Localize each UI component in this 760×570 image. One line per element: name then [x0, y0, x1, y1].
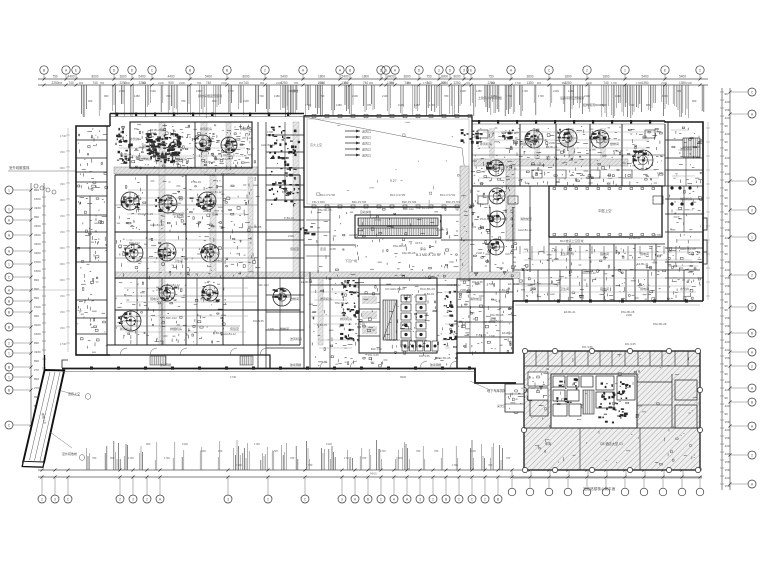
svg-text:B1F-P1706: B1F-P1706 — [320, 193, 336, 197]
svg-text:2: 2 — [751, 365, 753, 369]
svg-text:新风机房: 新风机房 — [120, 326, 132, 331]
vertical duct shafts top right rooms — [489, 128, 606, 160]
svg-text:1: 1 — [751, 236, 753, 240]
svg-text:1350: 1350 — [526, 81, 533, 85]
svg-text:158: 158 — [725, 108, 730, 112]
svg-text:158: 158 — [725, 468, 730, 472]
svg-text:3600: 3600 — [526, 75, 533, 79]
svg-text:2: 2 — [438, 69, 440, 73]
rooms below hall fine — [308, 208, 468, 273]
svg-text:C: C — [548, 69, 551, 73]
svg-text:96: 96 — [725, 140, 729, 144]
svg-text:780: 780 — [100, 81, 105, 85]
svg-text:2: 2 — [751, 454, 753, 458]
svg-text:AHU-B1-12: AHU-B1-12 — [582, 271, 596, 275]
vertical duct shafts left block — [159, 122, 323, 345]
svg-text:1730: 1730 — [375, 218, 381, 222]
svg-text:2100: 2100 — [586, 81, 592, 85]
escalator outline — [355, 215, 441, 238]
hall2 text — [560, 208, 612, 243]
svg-text:E: E — [470, 69, 473, 73]
svg-text:B1F-C12: B1F-C12 — [282, 190, 293, 194]
svg-text:1730: 1730 — [344, 456, 350, 460]
interior witness line east — [706, 122, 710, 300]
svg-text:96: 96 — [725, 164, 729, 168]
svg-text:B: B — [445, 498, 448, 502]
svg-text:水管井: 水管井 — [200, 296, 209, 301]
svg-text:A: A — [394, 69, 397, 73]
hall sparse marks — [317, 122, 466, 203]
svg-text:A: A — [8, 289, 11, 293]
svg-text:EF-B1-21: EF-B1-21 — [301, 280, 313, 284]
svg-text:740: 740 — [92, 81, 98, 85]
svg-text:PAU-B1-08: PAU-B1-08 — [318, 208, 332, 212]
svg-text:1730: 1730 — [655, 233, 661, 237]
svg-text:2: 2 — [751, 274, 753, 278]
svg-text:96: 96 — [725, 300, 729, 304]
svg-text:弱电间: 弱电间 — [150, 296, 159, 301]
hall bottom text row — [312, 200, 461, 204]
svg-text:3300: 3300 — [34, 233, 41, 237]
left dimension line 2 — [43, 183, 45, 440]
svg-text:890: 890 — [34, 215, 39, 219]
duct band horizontal center — [295, 272, 520, 279]
svg-text:走道: 走道 — [212, 211, 218, 216]
right dimension ticks — [720, 92, 730, 488]
equipment dark clusters — [118, 129, 646, 325]
svg-text:排烟机房: 排烟机房 — [240, 126, 252, 131]
svg-text:96: 96 — [725, 148, 729, 152]
svg-text:960: 960 — [239, 81, 244, 85]
svg-text:1730: 1730 — [258, 94, 264, 98]
svg-text:1730: 1730 — [228, 89, 234, 93]
tower core cells — [553, 376, 635, 423]
svg-text:玻璃雨棚: 玻璃雨棚 — [160, 363, 171, 367]
svg-text:780: 780 — [444, 94, 449, 98]
svg-text:P-B1-03: P-B1-03 — [213, 331, 223, 335]
tower core outline — [551, 374, 637, 428]
svg-text:3: 3 — [227, 498, 229, 502]
left column rooms fine — [470, 161, 517, 277]
svg-text:高大上空: 高大上空 — [310, 142, 322, 147]
svg-text:1730: 1730 — [380, 449, 386, 453]
top annotation boxes — [198, 88, 607, 107]
svg-text:740: 740 — [68, 81, 74, 85]
svg-text:B1F-C12: B1F-C12 — [129, 241, 140, 245]
hall roof diagonal — [305, 117, 469, 205]
svg-text:158: 158 — [725, 436, 730, 440]
svg-text:1730: 1730 — [400, 343, 406, 347]
svg-text:1730: 1730 — [128, 456, 134, 460]
svg-text:3: 3 — [54, 498, 56, 502]
svg-text:2: 2 — [267, 498, 269, 502]
right wall bumps — [703, 218, 707, 264]
svg-text:158: 158 — [725, 324, 730, 328]
top axis bubbles row — [40, 66, 704, 79]
duct band vertical center — [460, 166, 469, 281]
tower hatch body — [524, 351, 700, 470]
svg-text:96: 96 — [725, 372, 729, 376]
svg-text:酒店塔楼核心筒平面: 酒店塔楼核心筒平面 — [583, 486, 616, 491]
svg-text:A: A — [302, 69, 305, 73]
top witness line clusters — [82, 85, 704, 118]
svg-text:2100: 2100 — [150, 89, 156, 93]
svg-text:PAU-B1-08: PAU-B1-08 — [653, 322, 667, 326]
svg-text:1800: 1800 — [318, 75, 325, 79]
svg-text:排风机房: 排风机房 — [680, 196, 692, 201]
svg-text:2100: 2100 — [288, 234, 294, 238]
ramp outline — [23, 370, 64, 463]
svg-text:780: 780 — [290, 456, 295, 460]
core bottom fixtures — [402, 341, 438, 351]
svg-text:PAU-B1-08: PAU-B1-08 — [335, 301, 349, 305]
svg-text:P-B1-03: P-B1-03 — [355, 322, 365, 326]
svg-text:值班室: 值班室 — [230, 326, 239, 331]
svg-text:3: 3 — [132, 498, 134, 502]
bottom axis bubbles right group — [508, 479, 704, 496]
exterior wall bottom main — [62, 369, 516, 384]
svg-text:水管井: 水管井 — [680, 286, 689, 291]
svg-text:FFL 9.650: FFL 9.650 — [312, 200, 325, 204]
south wall thin offset line — [515, 304, 700, 306]
svg-text:2: 2 — [751, 209, 753, 213]
svg-text:B1F-C12: B1F-C12 — [258, 283, 269, 287]
svg-text:4400: 4400 — [387, 75, 394, 79]
svg-text:780: 780 — [142, 81, 147, 85]
svg-text:2100: 2100 — [553, 89, 559, 93]
svg-text:B: B — [8, 389, 11, 393]
mid-left rooms grid — [115, 175, 300, 345]
svg-text:1480: 1480 — [134, 94, 140, 98]
svg-text:1730: 1730 — [487, 282, 493, 286]
svg-text:3300: 3300 — [34, 350, 41, 354]
svg-text:FFL 9.65: FFL 9.65 — [625, 342, 636, 346]
svg-text:780: 780 — [58, 81, 63, 85]
svg-text:750: 750 — [426, 75, 432, 79]
tower west annex rooms — [505, 384, 525, 412]
svg-text:8000: 8000 — [242, 75, 249, 79]
svg-text:5400: 5400 — [679, 75, 686, 79]
svg-text:270: 270 — [34, 368, 39, 372]
exterior wall right wing bottom — [513, 300, 703, 302]
svg-text:1480: 1480 — [336, 103, 342, 107]
svg-text:B: B — [751, 401, 754, 405]
svg-text:740: 740 — [243, 81, 249, 85]
left leader line — [8, 165, 75, 171]
svg-text:AHU-B1-12: AHU-B1-12 — [208, 190, 222, 194]
svg-text:XFT-1: XFT-1 — [415, 241, 423, 245]
svg-text:D: D — [449, 69, 452, 73]
tower interior fine — [530, 354, 701, 465]
svg-text:2: 2 — [484, 498, 486, 502]
svg-text:D: D — [418, 69, 421, 73]
svg-text:8000: 8000 — [91, 75, 98, 79]
svg-text:890: 890 — [34, 278, 39, 282]
svg-text:1800: 1800 — [362, 75, 369, 79]
bottom axis bubbles left group — [38, 478, 502, 503]
hall outline — [304, 116, 472, 207]
svg-text:EF-B1-21: EF-B1-21 — [150, 128, 162, 132]
svg-text:楼梯间: 楼梯间 — [280, 326, 289, 331]
svg-text:960: 960 — [60, 278, 65, 282]
svg-text:1730: 1730 — [636, 81, 642, 85]
svg-text:890: 890 — [34, 296, 39, 300]
svg-text:1730: 1730 — [506, 94, 512, 98]
svg-text:EF-B1-21: EF-B1-21 — [502, 331, 514, 335]
svg-text:900: 900 — [168, 81, 174, 85]
column ticks bottom walkway — [90, 367, 471, 370]
exterior wall left wing — [76, 126, 110, 355]
svg-text:960: 960 — [218, 449, 223, 453]
svg-text:5400: 5400 — [641, 75, 648, 79]
svg-text:960: 960 — [146, 442, 151, 446]
south-right rooms row — [513, 270, 700, 301]
svg-text:C: C — [304, 498, 307, 502]
scatter labels2 — [120, 128, 667, 360]
svg-text:EF-B1-21: EF-B1-21 — [629, 236, 641, 240]
duct band horizontal upper-left — [114, 167, 258, 174]
svg-text:A: A — [751, 180, 754, 184]
svg-text:PAU-B1-08: PAU-B1-08 — [402, 251, 416, 255]
walkway canopy hooks — [62, 360, 68, 368]
svg-text:B1F-P1705: B1F-P1705 — [402, 200, 417, 204]
svg-text:158: 158 — [725, 420, 730, 424]
svg-text:750: 750 — [488, 75, 494, 79]
svg-text:P-B1-03: P-B1-03 — [424, 292, 434, 296]
svg-text:PAU-B1-08: PAU-B1-08 — [437, 356, 451, 360]
svg-text:玻璃雨棚: 玻璃雨棚 — [430, 363, 441, 367]
svg-text:消防前室: 消防前室 — [520, 216, 532, 221]
svg-text:330: 330 — [725, 100, 730, 104]
svg-text:330: 330 — [725, 116, 730, 120]
svg-text:960: 960 — [60, 198, 65, 202]
svg-text:1730: 1730 — [657, 171, 663, 175]
hall2 outline — [549, 186, 662, 237]
svg-text:2100: 2100 — [382, 94, 388, 98]
svg-text:960: 960 — [88, 99, 93, 103]
svg-text:8000: 8000 — [441, 75, 448, 79]
svg-text:330: 330 — [725, 292, 730, 296]
hall edge ticks — [312, 115, 472, 209]
svg-text:卫生间: 卫生间 — [560, 286, 569, 291]
svg-text:FFL 9.65: FFL 9.65 — [204, 173, 215, 177]
svg-text:960: 960 — [60, 262, 65, 266]
svg-text:A: A — [751, 425, 754, 429]
left block interior fine lines — [116, 124, 260, 344]
svg-text:A: A — [751, 113, 754, 117]
svg-text:AHU-B1-12: AHU-B1-12 — [386, 338, 400, 342]
exterior wall top right — [472, 121, 665, 124]
svg-text:C: C — [471, 498, 474, 502]
svg-text:96: 96 — [725, 396, 729, 400]
escalator treads — [358, 218, 438, 236]
ramp upper note — [58, 390, 91, 399]
svg-text:960: 960 — [110, 456, 115, 460]
svg-text:C: C — [458, 498, 461, 502]
svg-text:780: 780 — [92, 456, 97, 460]
interior witness line west — [60, 128, 70, 352]
svg-text:3600: 3600 — [403, 75, 410, 79]
svg-text:960: 960 — [491, 81, 496, 85]
top small dim texts — [88, 89, 697, 107]
svg-text:158: 158 — [725, 356, 730, 360]
svg-text:1730: 1730 — [429, 103, 435, 107]
svg-text:FFL 9.65: FFL 9.65 — [368, 353, 379, 357]
svg-text:2100: 2100 — [243, 99, 249, 103]
svg-text:P-B1-03: P-B1-03 — [613, 149, 623, 153]
svg-text:2: 2 — [432, 498, 434, 502]
svg-text:96: 96 — [725, 124, 729, 128]
svg-text:330: 330 — [725, 476, 730, 480]
svg-text:A: A — [751, 483, 754, 487]
svg-text:1480: 1480 — [568, 89, 574, 93]
left axis bubbles — [5, 186, 30, 429]
svg-text:库房: 库房 — [136, 258, 142, 263]
svg-text:780: 780 — [320, 94, 325, 98]
svg-text:1730: 1730 — [662, 94, 668, 98]
svg-text:890: 890 — [34, 188, 39, 192]
svg-text:1800: 1800 — [602, 75, 609, 79]
svg-text:EF-B1-21: EF-B1-21 — [637, 262, 649, 266]
top dimension line 2 — [38, 84, 708, 86]
walkway note2 — [497, 403, 519, 414]
svg-text:送风口: 送风口 — [362, 135, 371, 140]
svg-text:AHU-B1-12: AHU-B1-12 — [222, 332, 236, 336]
svg-text:PAU-B1-08: PAU-B1-08 — [248, 225, 262, 229]
tower texts — [545, 441, 623, 446]
svg-text:B1F-C12: B1F-C12 — [403, 207, 414, 211]
left wing fine — [78, 128, 109, 352]
svg-text:C: C — [151, 69, 154, 73]
svg-text:B: B — [751, 332, 754, 336]
svg-text:2100: 2100 — [212, 289, 218, 293]
svg-text:780: 780 — [367, 103, 372, 107]
svg-text:送风口: 送风口 — [362, 141, 371, 146]
svg-text:P-B1-03: P-B1-03 — [284, 216, 294, 220]
svg-text:AHU-B1-12: AHU-B1-12 — [166, 283, 180, 287]
svg-text:1480: 1480 — [196, 89, 202, 93]
duct band horizontal right — [474, 159, 628, 166]
svg-text:5400: 5400 — [341, 75, 348, 79]
svg-text:EF-B1-21: EF-B1-21 — [508, 282, 520, 286]
svg-text:2100: 2100 — [182, 442, 188, 446]
svg-text:C: C — [67, 498, 70, 502]
svg-text:330: 330 — [725, 452, 730, 456]
svg-text:890: 890 — [34, 359, 39, 363]
svg-text:B: B — [8, 311, 11, 315]
svg-text:D: D — [385, 69, 388, 73]
misc dense details — [116, 126, 458, 345]
svg-text:1500: 1500 — [34, 332, 41, 336]
svg-text:2: 2 — [119, 498, 121, 502]
svg-text:PAU-B1-08: PAU-B1-08 — [531, 163, 545, 167]
column ticks right bottom wall — [525, 300, 688, 303]
svg-text:780: 780 — [506, 456, 511, 460]
wall between hall2 and rooms — [529, 186, 531, 240]
svg-text:B1F-C12: B1F-C12 — [371, 347, 382, 351]
svg-text:1480: 1480 — [615, 94, 621, 98]
svg-text:E: E — [664, 69, 667, 73]
svg-text:1730: 1730 — [60, 134, 67, 138]
svg-text:960: 960 — [60, 166, 65, 170]
svg-text:送风口: 送风口 — [362, 153, 371, 158]
left top mini bubbles — [34, 184, 56, 194]
svg-text:2100: 2100 — [158, 81, 164, 85]
svg-text:96: 96 — [725, 204, 729, 208]
svg-text:9600: 9600 — [400, 375, 407, 379]
duct band vertical right — [506, 166, 515, 241]
svg-text:P-B1-03: P-B1-03 — [525, 139, 535, 143]
svg-text:2100: 2100 — [626, 313, 632, 317]
svg-text:158: 158 — [725, 220, 730, 224]
svg-text:新风机房: 新风机房 — [480, 141, 492, 146]
svg-text:1730: 1730 — [515, 81, 521, 85]
svg-text:D: D — [113, 69, 116, 73]
left block sub partitions — [115, 205, 258, 326]
svg-text:890: 890 — [34, 314, 39, 318]
svg-text:890: 890 — [34, 287, 39, 291]
tower west cells — [528, 372, 548, 400]
svg-text:330: 330 — [60, 326, 65, 330]
svg-text:1730: 1730 — [177, 213, 183, 217]
svg-text:96: 96 — [725, 412, 729, 416]
svg-text:B1F坡道上空区域: B1F坡道上空区域 — [560, 238, 584, 243]
svg-text:2100: 2100 — [231, 147, 237, 151]
svg-text:PAU-B1-08: PAU-B1-08 — [490, 313, 504, 317]
svg-text:1500: 1500 — [34, 269, 41, 273]
cells left of hall — [266, 122, 304, 200]
mid-left lower wall — [107, 344, 300, 346]
top dimension ticks — [43, 78, 702, 87]
svg-text:B1F-C12: B1F-C12 — [459, 320, 470, 324]
svg-text:连廊上空: 连廊上空 — [68, 391, 80, 396]
svg-text:2250: 2250 — [453, 81, 460, 85]
ramp end cap — [22, 462, 44, 467]
svg-text:330: 330 — [60, 230, 65, 234]
svg-text:960: 960 — [369, 81, 374, 85]
svg-text:送风机房: 送风机房 — [680, 146, 692, 151]
svg-text:2100: 2100 — [661, 81, 667, 85]
svg-text:158: 158 — [725, 460, 730, 464]
svg-text:2100: 2100 — [221, 81, 227, 85]
svg-text:结构留洞900x900: 结构留洞900x900 — [583, 102, 607, 107]
svg-text:新风机房: 新风机房 — [200, 126, 212, 131]
svg-text:2100: 2100 — [179, 81, 185, 85]
machine room interior fine — [139, 124, 251, 169]
svg-text:330: 330 — [725, 132, 730, 136]
svg-text:780: 780 — [197, 81, 202, 85]
svg-text:EF-B1-21: EF-B1-21 — [204, 160, 216, 164]
svg-text:780: 780 — [466, 81, 471, 85]
exterior wall top main — [110, 114, 304, 117]
svg-text:5400: 5400 — [138, 75, 145, 79]
svg-text:158: 158 — [725, 228, 730, 232]
svg-text:排烟机房: 排烟机房 — [170, 326, 182, 331]
svg-text:P-B1-03: P-B1-03 — [499, 288, 509, 292]
svg-text:2: 2 — [264, 69, 266, 73]
svg-text:设备吊装口预留洞: 设备吊装口预留洞 — [560, 95, 584, 100]
right wing fine — [668, 127, 705, 300]
column ticks top walls — [116, 113, 651, 124]
svg-text:330: 330 — [725, 428, 730, 432]
right wing stair — [683, 138, 700, 157]
svg-text:1: 1 — [624, 69, 626, 73]
svg-text:B: B — [189, 69, 192, 73]
tower column bubbles — [521, 348, 702, 472]
svg-text:EF-B1-21: EF-B1-21 — [564, 310, 576, 314]
svg-text:960: 960 — [60, 246, 65, 250]
svg-text:2100: 2100 — [686, 81, 692, 85]
